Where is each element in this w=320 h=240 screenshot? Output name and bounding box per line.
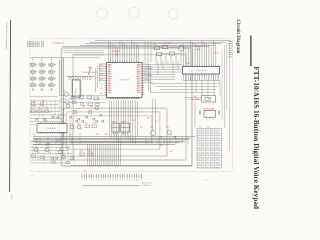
svg-text:R 10: R 10 xyxy=(215,53,219,55)
svg-text:IC03: IC03 xyxy=(186,63,190,65)
svg-text:P07: P07 xyxy=(199,127,202,129)
svg-text:R12: R12 xyxy=(150,127,153,129)
svg-text:uPD75P308: uPD75P308 xyxy=(119,79,129,81)
svg-text:R21: R21 xyxy=(100,83,103,85)
svg-text:INT0: INT0 xyxy=(137,74,140,76)
svg-text:c05: c05 xyxy=(95,100,98,102)
svg-text:+5 101: +5 101 xyxy=(195,45,202,47)
svg-text:Circuit Diagram: Circuit Diagram xyxy=(235,20,240,54)
svg-text:P08: P08 xyxy=(207,127,210,129)
svg-text:R12: R12 xyxy=(166,127,169,129)
svg-text:FTT-10/A16S 16-Button Digital: FTT-10/A16S 16-Button Digital Voice Keyp… xyxy=(252,67,260,210)
svg-text:R12: R12 xyxy=(70,134,73,136)
svg-text:J01 (or P06): J01 (or P06) xyxy=(142,182,152,184)
svg-text:c05: c05 xyxy=(89,155,92,157)
svg-text:R44: R44 xyxy=(147,118,150,120)
svg-text:P00: P00 xyxy=(108,86,111,88)
svg-text:C31: C31 xyxy=(140,112,143,114)
svg-text:P00: P00 xyxy=(108,84,111,86)
svg-text:R12: R12 xyxy=(63,91,66,93)
svg-text:C52: C52 xyxy=(31,176,34,178)
svg-text:TA78L005AP: TA78L005AP xyxy=(203,108,215,111)
svg-text:INT0: INT0 xyxy=(137,67,140,69)
svg-text:R12: R12 xyxy=(96,134,99,136)
svg-text:c05: c05 xyxy=(81,155,84,157)
svg-text:P00: P00 xyxy=(108,77,111,79)
svg-text:R21: R21 xyxy=(100,93,103,95)
svg-text:R12: R12 xyxy=(79,134,82,136)
svg-text:P00: P00 xyxy=(108,79,111,81)
svg-text:INT0: INT0 xyxy=(137,84,140,86)
svg-text:SC-1: SC-1 xyxy=(10,195,13,201)
svg-text:INT0: INT0 xyxy=(137,79,140,81)
svg-text:c05: c05 xyxy=(70,99,73,101)
svg-text:SP01: SP01 xyxy=(112,121,116,123)
svg-text:c05: c05 xyxy=(88,99,91,101)
svg-text:R21: R21 xyxy=(100,79,103,81)
svg-text:R12: R12 xyxy=(146,140,149,142)
svg-text:R21: R21 xyxy=(100,74,103,76)
svg-text:P00: P00 xyxy=(108,70,111,72)
svg-text:c05: c05 xyxy=(62,155,65,157)
svg-text:P00: P00 xyxy=(108,88,111,90)
svg-text:R21: R21 xyxy=(100,88,103,90)
svg-text:R12: R12 xyxy=(170,151,173,153)
svg-text:to MAIN unit: to MAIN unit xyxy=(142,184,152,187)
svg-text:F 25/B(1)-01: F 25/B(1)-01 xyxy=(53,42,65,44)
svg-text:R12: R12 xyxy=(88,151,91,153)
svg-text:TC4069UBP: TC4069UBP xyxy=(46,128,57,130)
svg-text:FT-890 Technical Supplement: FT-890 Technical Supplement xyxy=(5,21,8,50)
svg-text:P00: P00 xyxy=(108,72,111,74)
svg-text:R12: R12 xyxy=(83,106,86,108)
svg-text:P00: P00 xyxy=(108,81,111,83)
svg-text:INT0: INT0 xyxy=(137,86,140,88)
svg-text:R12: R12 xyxy=(78,124,81,126)
svg-text:+5 100: +5 100 xyxy=(195,49,202,51)
svg-text:uPD6376GS: uPD6376GS xyxy=(196,70,207,72)
svg-text:R12: R12 xyxy=(105,134,108,136)
svg-text:R12: R12 xyxy=(85,123,88,125)
svg-text:P00: P00 xyxy=(108,91,111,93)
svg-text:INT0: INT0 xyxy=(137,65,140,67)
svg-text:INT0: INT0 xyxy=(137,88,140,90)
svg-text:C29: C29 xyxy=(155,121,158,123)
svg-text:P1: P1 xyxy=(84,171,86,173)
svg-text:R21: R21 xyxy=(100,65,103,67)
svg-text:8.00MHz: 8.00MHz xyxy=(193,99,200,101)
svg-text:2SC4081: 2SC4081 xyxy=(112,51,122,53)
svg-text:c05: c05 xyxy=(154,136,157,138)
svg-text:R12: R12 xyxy=(59,149,62,151)
svg-text:R12: R12 xyxy=(133,120,136,122)
svg-text:R07 103: R07 103 xyxy=(164,43,171,45)
svg-text:INT0: INT0 xyxy=(137,70,140,72)
svg-text:c05: c05 xyxy=(73,129,76,131)
svg-text:INT0: INT0 xyxy=(137,72,140,74)
svg-text:INT0: INT0 xyxy=(137,77,140,79)
svg-text:R12: R12 xyxy=(160,145,163,147)
svg-text:R12: R12 xyxy=(140,127,143,129)
svg-text:Q03: Q03 xyxy=(153,44,156,46)
svg-text:INT0: INT0 xyxy=(137,81,140,83)
svg-text:c05: c05 xyxy=(80,129,83,131)
svg-text:R21: R21 xyxy=(100,70,103,72)
svg-text:R12: R12 xyxy=(93,123,96,125)
svg-text:BU4094: BU4094 xyxy=(75,88,77,94)
svg-text:c05: c05 xyxy=(43,106,46,108)
svg-text:P00: P00 xyxy=(108,67,111,69)
svg-text:P00: P00 xyxy=(108,74,111,76)
svg-text:R12: R12 xyxy=(80,151,83,153)
svg-text:R12: R12 xyxy=(96,103,99,105)
svg-text:R12: R12 xyxy=(33,134,36,136)
svg-text:P00: P00 xyxy=(108,65,111,67)
svg-text:c05: c05 xyxy=(34,106,37,108)
svg-text:R12: R12 xyxy=(31,142,34,144)
svg-text:INT0: INT0 xyxy=(137,91,140,93)
svg-text:c05: c05 xyxy=(170,135,173,137)
svg-text:R12: R12 xyxy=(90,106,93,108)
svg-text:R12: R12 xyxy=(70,124,73,126)
svg-text:6-5: 6-5 xyxy=(205,180,209,182)
